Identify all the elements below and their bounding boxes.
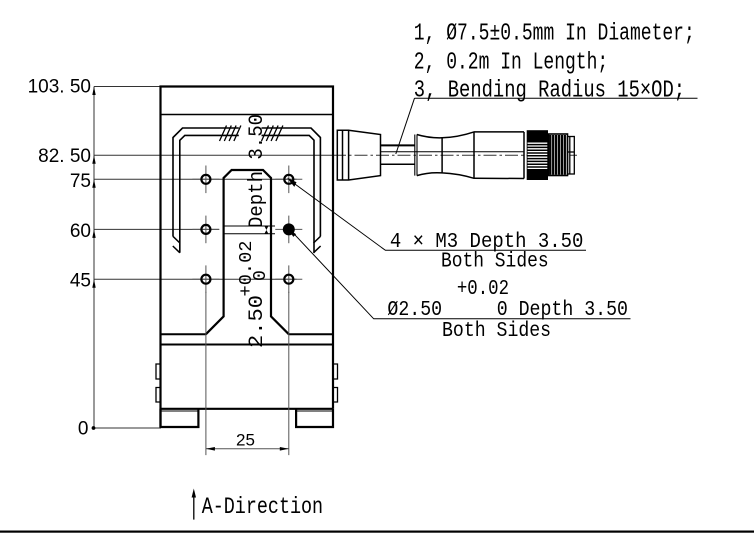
svg-text:0: 0 — [78, 419, 89, 440]
svg-text:0: 0 — [251, 270, 271, 281]
svg-text:2.50: 2.50 — [246, 295, 269, 348]
svg-text:A-Direction: A-Direction — [202, 493, 323, 520]
svg-text:2, 0.2m In Length;: 2, 0.2m In Length; — [414, 48, 608, 76]
svg-text:Both Sides: Both Sides — [441, 251, 549, 274]
svg-text:103. 50: 103. 50 — [28, 77, 91, 98]
svg-text:75: 75 — [70, 171, 91, 192]
svg-text:+0.02: +0.02 — [457, 278, 509, 301]
svg-text:Depth 3.50: Depth 3.50 — [246, 114, 269, 228]
svg-text:25: 25 — [236, 431, 255, 450]
svg-text:60: 60 — [70, 221, 91, 242]
svg-text:1, Ø7.5±0.5mm In Diameter;: 1, Ø7.5±0.5mm In Diameter; — [414, 19, 695, 47]
svg-text:+0.02: +0.02 — [237, 241, 257, 297]
svg-text:3, Bending Radius 15×OD;: 3, Bending Radius 15×OD; — [414, 76, 685, 104]
svg-text:Ø2.50 0 Depth 3.50: Ø2.50 0 Depth 3.50 — [387, 299, 628, 322]
svg-text:82. 50: 82. 50 — [38, 146, 91, 167]
svg-text:45: 45 — [70, 271, 91, 292]
svg-text:Both Sides: Both Sides — [442, 320, 551, 343]
